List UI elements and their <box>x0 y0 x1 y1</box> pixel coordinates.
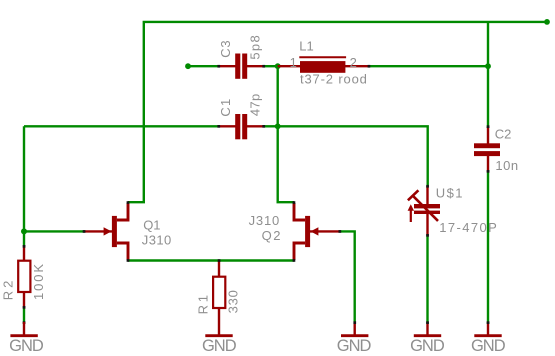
svg-text:GND: GND <box>202 337 237 355</box>
svg-text:100K: 100K <box>31 262 46 300</box>
transistor Q2 <box>293 201 342 262</box>
ground GND3 (Q2 gate) <box>341 321 368 335</box>
wire C2 bottom to GND <box>487 171 489 324</box>
node junction C1 line <box>275 123 281 129</box>
svg-text:L1: L1 <box>299 39 313 54</box>
svg-text:47p: 47p <box>248 94 263 117</box>
svg-text:J310: J310 <box>249 213 280 228</box>
node junction at C2 column <box>485 63 491 69</box>
wire C3 left stub <box>188 65 220 67</box>
svg-text:C3: C3 <box>218 40 233 58</box>
wire source rail <box>128 259 294 261</box>
svg-text:C1: C1 <box>218 98 233 117</box>
wire vertical x278 from C3 node down to Q2 drain <box>278 66 294 202</box>
wire Q1 gate <box>24 230 85 232</box>
wire top rail <box>128 22 547 202</box>
svg-text:GND: GND <box>337 337 372 355</box>
svg-text:GND: GND <box>410 337 445 355</box>
svg-text:GND: GND <box>471 337 506 355</box>
svg-text:2: 2 <box>350 55 357 70</box>
svg-text:C2: C2 <box>495 126 512 141</box>
svg-text:17-470P: 17-470P <box>439 220 498 235</box>
ground GND5 (C2) <box>474 321 501 335</box>
svg-text:U$1: U$1 <box>436 185 464 200</box>
svg-text:Q2: Q2 <box>262 228 282 243</box>
svg-text:1: 1 <box>290 55 297 70</box>
node top-right end dot <box>544 19 550 25</box>
wire C1 net horizontal and to U$1 <box>24 125 220 127</box>
wire L1 right to C2 column <box>369 65 488 67</box>
wire gate node down to R2 <box>23 231 25 246</box>
svg-text:R2: R2 <box>1 278 16 301</box>
wire Q2 gate to GND <box>340 231 355 323</box>
wire R2 bottom to GND <box>23 308 25 324</box>
node C3 left dot <box>185 63 191 69</box>
svg-text:J310: J310 <box>142 233 172 248</box>
node junction R2/gate <box>21 228 27 234</box>
node junction C3/L1 <box>275 63 281 69</box>
wire C2 top vertical <box>487 22 489 128</box>
resistor R2 <box>18 245 30 324</box>
wire C3 right to vertical <box>263 65 278 67</box>
svg-text:GND: GND <box>9 337 44 355</box>
svg-text:t37-2 rood: t37-2 rood <box>300 71 368 86</box>
svg-text:10n: 10n <box>495 158 518 173</box>
wire left vertical down to gate node <box>23 126 25 231</box>
svg-text:R1: R1 <box>196 292 211 314</box>
transistor Q1 <box>83 201 130 262</box>
ground GND2 (R1) <box>205 334 232 337</box>
svg-text:Q1: Q1 <box>143 217 160 232</box>
capacitor C3 <box>217 54 265 79</box>
resistor R1 <box>213 259 225 335</box>
capacitor C2 <box>474 125 500 172</box>
svg-text:5p8: 5p8 <box>248 34 263 60</box>
wire U$1 bottom to GND <box>426 236 428 324</box>
svg-text:330: 330 <box>226 289 241 313</box>
inductor L1 <box>278 57 371 72</box>
ground GND1 (R2) <box>10 322 37 336</box>
ground GND4 (U$1) <box>414 321 441 335</box>
trimmer capacitor U$1 <box>408 185 440 237</box>
capacitor C1 <box>217 114 265 139</box>
